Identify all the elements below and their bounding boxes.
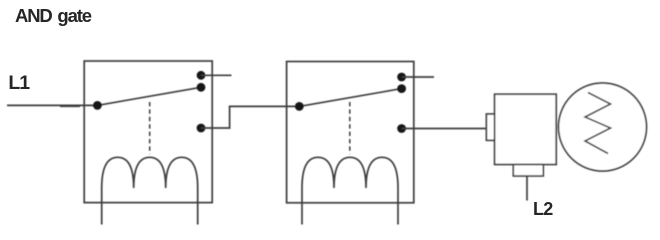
relay K1 coil [102,157,198,224]
wire overlap artifact segment [60,105,80,107]
node L1 label [8,74,29,94]
relay K2 actuation dashed link [349,102,351,154]
title label "AND gate" [15,7,91,26]
relay K1 actuation dashed link [149,102,151,154]
wire lamp bottom terminal to L2 [526,176,528,201]
relay K1 common pivot node [93,101,102,110]
relay K2 body box [287,62,414,203]
lamp socket body [495,94,557,164]
relay K1 NC contact node [197,71,206,80]
relay K1 NO contact node [197,124,206,133]
lamp bottom terminal [513,165,543,177]
relay K1 armature contact node [197,83,206,92]
lamp bulb globe [559,83,647,171]
wire L1 input to relay K1 common [7,104,97,106]
relay K2 NC contact node [397,73,406,82]
wire relay K1 NO contact to relay K2 common (step) [201,106,299,128]
relay K2 switch arm [299,89,401,107]
relay K2 coil [302,157,398,224]
node L2 label [533,200,553,218]
lamp filament zigzag [585,93,611,154]
relay K2 common pivot node [295,102,304,111]
relay K2 NO contact node [397,124,406,133]
relay K1 NC contact stub wire [201,74,232,76]
lamp left input terminal tab [486,114,494,140]
relay K2 armature contact node [397,84,406,93]
relay K1 switch arm [97,87,201,105]
wire relay K2 NO contact to lamp terminal [402,128,487,130]
relay K1 body box [84,61,212,203]
relay K2 NC contact stub wire [402,76,434,78]
